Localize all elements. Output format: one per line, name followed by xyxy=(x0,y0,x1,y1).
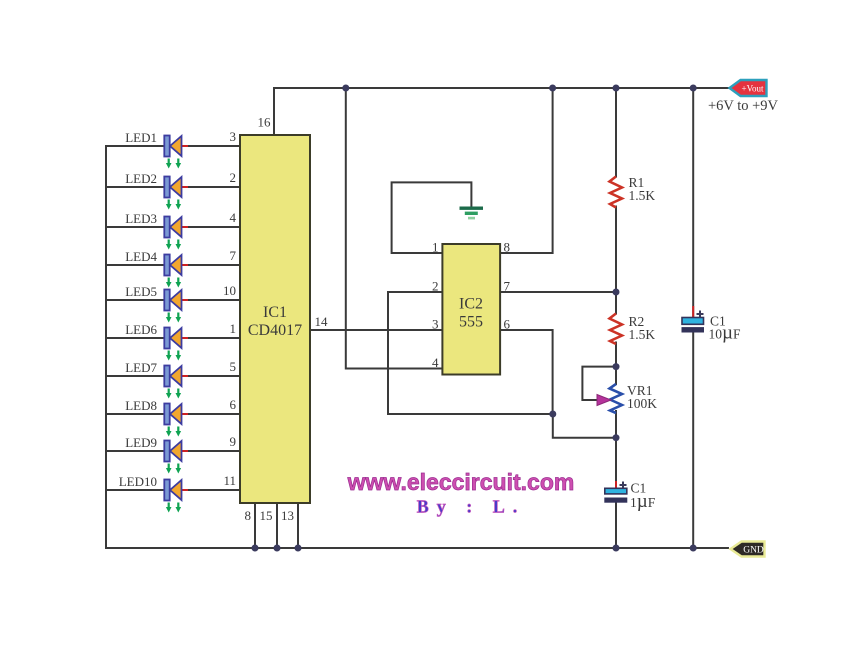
svg-text:100K: 100K xyxy=(627,396,657,411)
+Vout flag xyxy=(708,80,779,114)
LED1 xyxy=(125,129,236,169)
IC2 555 xyxy=(442,244,500,375)
svg-text:www.eleccircuit.com: www.eleccircuit.com xyxy=(347,469,575,495)
svg-text:+6V to +9V: +6V to +9V xyxy=(708,98,779,114)
svg-text:By : L.: By : L. xyxy=(417,497,526,517)
svg-text:7: 7 xyxy=(230,248,237,263)
svg-text:LED5: LED5 xyxy=(125,284,157,299)
wire IC1 pin13 stub xyxy=(297,503,299,548)
svg-text:LED2: LED2 xyxy=(125,171,157,186)
svg-text:4: 4 xyxy=(230,210,237,225)
LED2 xyxy=(125,170,236,210)
LED7 xyxy=(125,359,236,399)
wire LED row 1 xyxy=(106,145,240,147)
junction VR1 bottom xyxy=(613,434,620,441)
junction top rail pin4 drop xyxy=(342,85,349,92)
wire IC1 pin15 stub xyxy=(276,503,278,548)
ground xyxy=(460,207,484,220)
wire top rail to IC2 pin4 xyxy=(346,88,442,369)
junction rail IC1 pin13 xyxy=(295,545,302,552)
svg-text:CD4017: CD4017 xyxy=(248,322,302,339)
svg-text:4: 4 xyxy=(432,355,439,370)
svg-text:LED1: LED1 xyxy=(125,130,157,145)
svg-text:1: 1 xyxy=(230,321,237,336)
svg-text:11: 11 xyxy=(223,473,236,488)
LED8 xyxy=(125,397,236,437)
wire R1 top xyxy=(615,88,617,177)
wire top supply rail xyxy=(274,87,729,89)
wire IC1 pin16 stub to top rail xyxy=(273,88,275,135)
junction pin2 pin6 xyxy=(549,411,556,418)
wire LED row 9 xyxy=(106,450,240,452)
junction top rail R1 xyxy=(613,85,620,92)
svg-text:10: 10 xyxy=(223,283,236,298)
junction rail IC1 pin15 xyxy=(274,545,281,552)
wire VR1 bottom xyxy=(615,411,617,488)
svg-text:1.5K: 1.5K xyxy=(629,327,656,342)
wire junction to VR1 bottom xyxy=(553,414,616,438)
svg-text:LED3: LED3 xyxy=(125,211,157,226)
svg-text:LED4: LED4 xyxy=(125,249,157,264)
svg-text:10µF: 10µF xyxy=(709,323,741,344)
svg-text:3: 3 xyxy=(432,317,439,332)
junction rail C2 xyxy=(690,545,697,552)
svg-text:15: 15 xyxy=(260,508,273,523)
svg-text:LED6: LED6 xyxy=(125,322,157,337)
junction top rail pin8 drop xyxy=(549,85,556,92)
LED4 xyxy=(125,248,236,288)
junction rail C1 xyxy=(613,545,620,552)
capacitor C1 1uF xyxy=(605,481,656,513)
svg-text:6: 6 xyxy=(504,317,511,332)
junction top rail C2 xyxy=(690,85,697,92)
LED10 xyxy=(119,473,236,513)
wire IC1 pin14 to IC2 pin3 xyxy=(310,329,442,331)
wire LED row 3 xyxy=(106,226,240,228)
junction rail IC1 pin8 xyxy=(252,545,259,552)
svg-text:555: 555 xyxy=(459,314,483,331)
wire IC2 pin1 to ground xyxy=(392,182,472,253)
wire VR1 wiper loop xyxy=(582,367,616,400)
LED6 xyxy=(125,321,236,361)
wire LED row 6 xyxy=(106,337,240,339)
svg-text:7: 7 xyxy=(504,279,511,294)
svg-text:9: 9 xyxy=(230,434,237,449)
svg-text:IC2: IC2 xyxy=(459,296,483,313)
wire bottom ground rail xyxy=(106,547,728,549)
resistor R1 xyxy=(610,175,656,208)
wire LED row 2 xyxy=(106,186,240,188)
svg-text:LED7: LED7 xyxy=(125,360,157,375)
svg-text:IC1: IC1 xyxy=(263,304,287,321)
svg-text:8: 8 xyxy=(245,508,252,523)
svg-text:1.5K: 1.5K xyxy=(629,188,656,203)
svg-text:2: 2 xyxy=(432,279,439,294)
svg-text:3: 3 xyxy=(230,129,237,144)
wire IC2 pin7 to R1 R2 junction xyxy=(500,291,616,293)
svg-text:1: 1 xyxy=(432,240,439,255)
wire IC2 pin8 to top rail xyxy=(500,88,553,253)
svg-text:+Vout: +Vout xyxy=(742,84,764,94)
svg-text:2: 2 xyxy=(230,170,237,185)
wire LED row 4 xyxy=(106,264,240,266)
svg-text:5: 5 xyxy=(230,359,237,374)
svg-text:1µF: 1µF xyxy=(630,491,656,512)
capacitor C2 10uF xyxy=(682,306,741,344)
svg-text:LED9: LED9 xyxy=(125,435,157,450)
wire R1 bottom to R2 top xyxy=(615,207,617,314)
svg-text:16: 16 xyxy=(258,115,272,130)
svg-text:13: 13 xyxy=(281,508,294,523)
svg-text:14: 14 xyxy=(315,314,329,329)
LED3 xyxy=(125,210,236,250)
svg-text:6: 6 xyxy=(230,397,237,412)
junction VR1 top xyxy=(613,363,620,370)
junction R1 R2 pin7 xyxy=(613,289,620,296)
svg-text:GND: GND xyxy=(743,546,764,556)
wire LED row 7 xyxy=(106,375,240,377)
potentiometer VR1 xyxy=(597,383,657,413)
wire LED row 8 xyxy=(106,413,240,415)
LED5 xyxy=(125,283,236,323)
svg-text:LED10: LED10 xyxy=(119,474,157,489)
wire left anode rail xyxy=(105,146,107,548)
wire LED row 10 xyxy=(106,489,240,491)
wire R2 bottom to VR1 xyxy=(615,343,617,385)
svg-text:LED8: LED8 xyxy=(125,398,157,413)
wire C2 10uF branch bottom xyxy=(692,332,694,548)
GND flag xyxy=(731,542,765,557)
IC1 CD4017 xyxy=(240,135,310,503)
wire IC1 pin8 stub xyxy=(254,503,256,548)
wire C2 10uF branch top xyxy=(692,88,694,318)
wire C1 1uF to ground rail xyxy=(615,502,617,548)
LED9 xyxy=(125,434,236,474)
wire IC2 pin2 down to junction xyxy=(388,292,553,414)
resistor R2 xyxy=(610,314,656,345)
wire IC2 pin6 down to junction xyxy=(500,330,553,414)
svg-text:8: 8 xyxy=(504,240,511,255)
wire LED row 5 xyxy=(106,299,240,301)
